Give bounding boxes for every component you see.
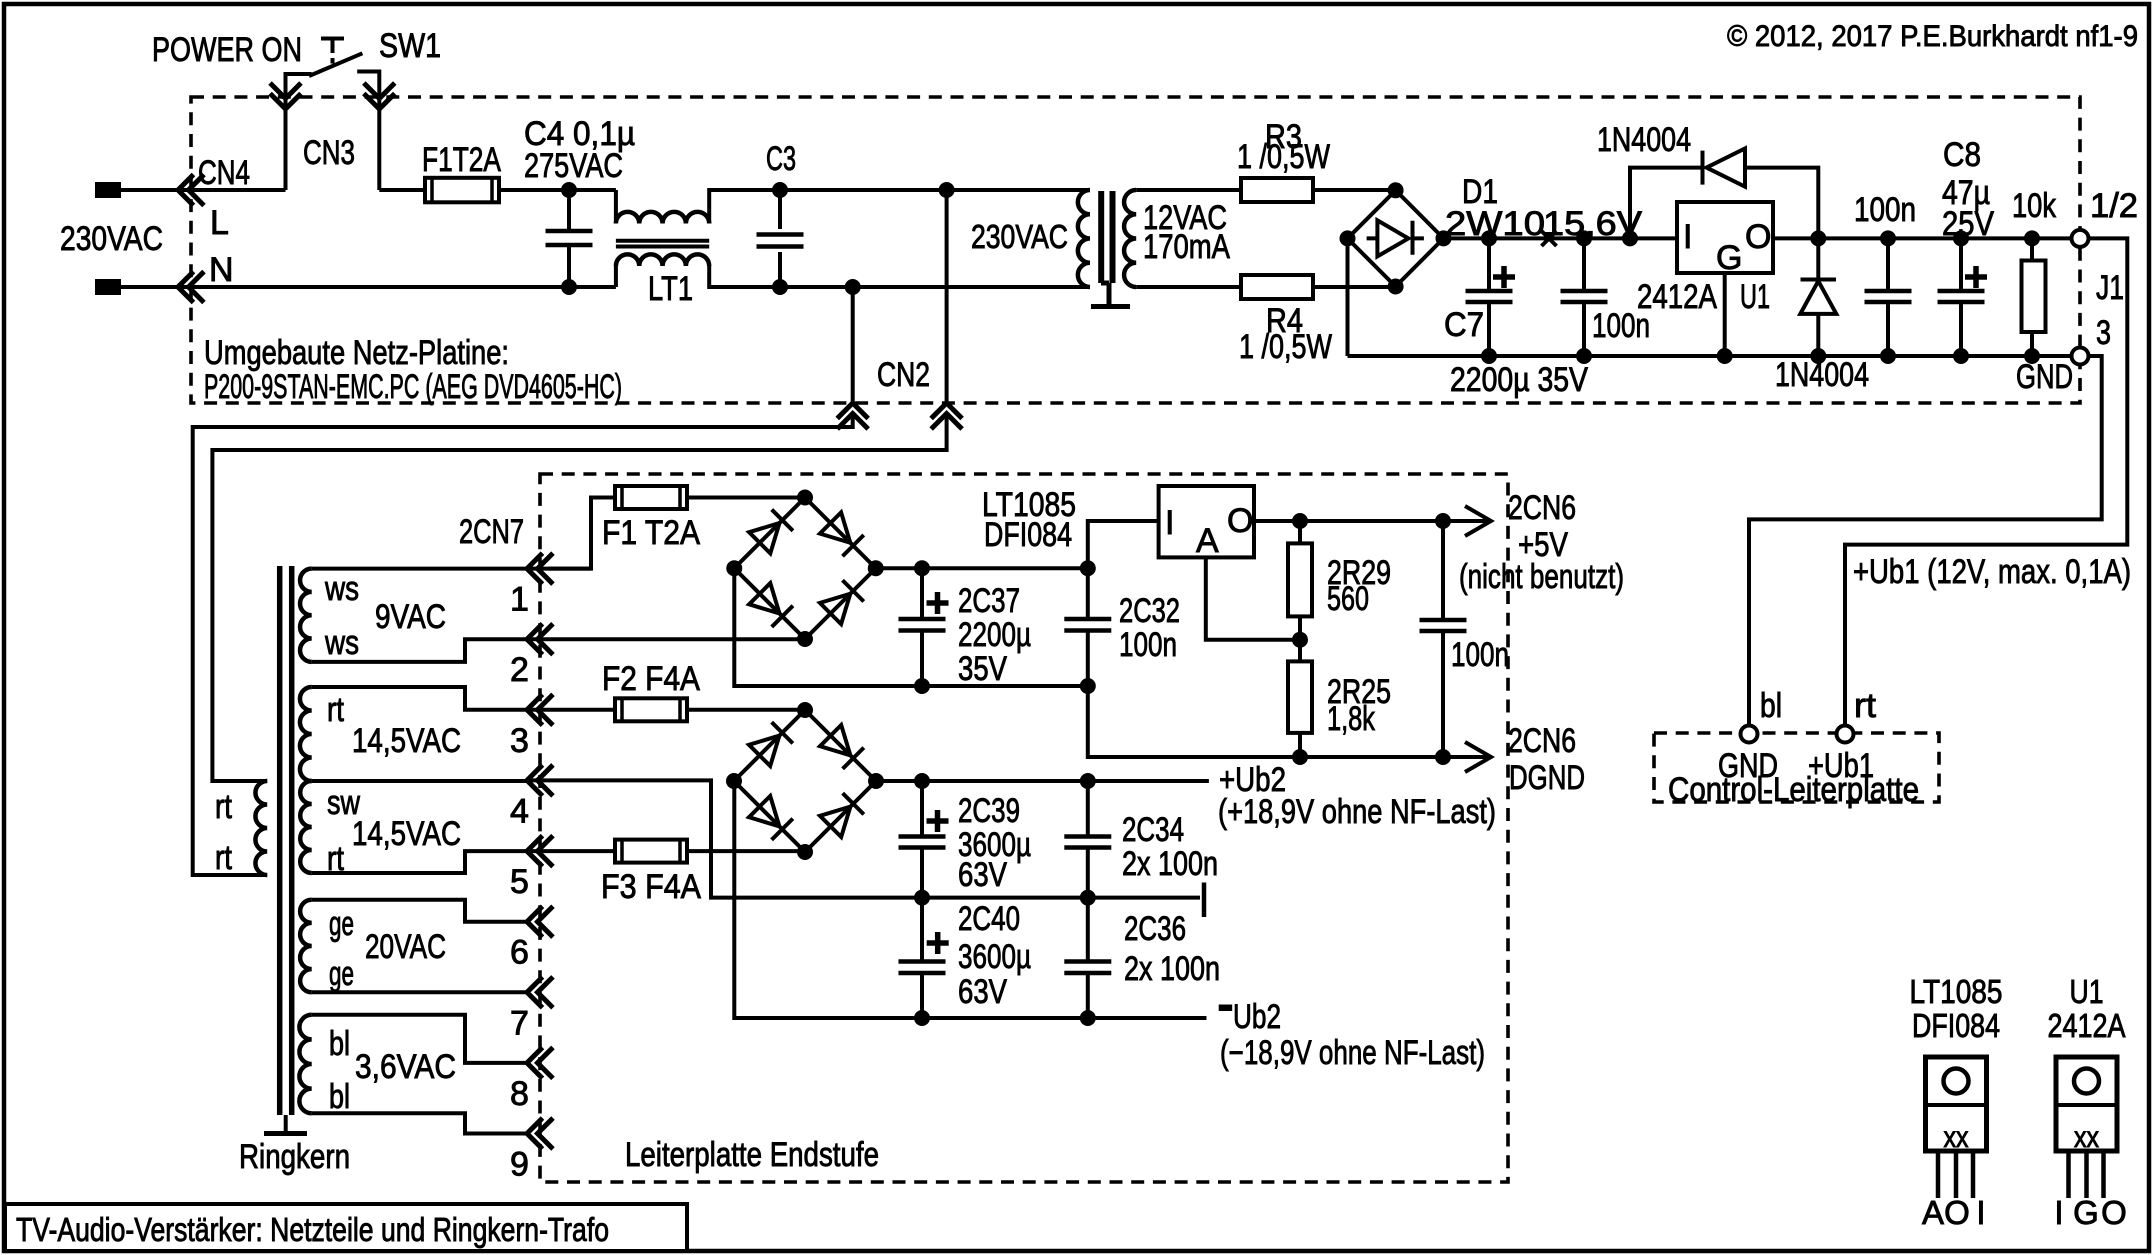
2C40 leads — [920, 898, 924, 1018]
node 1N4004 tap — [1622, 230, 1638, 246]
svg-text:4: 4 — [510, 792, 529, 830]
C3 plates — [757, 235, 804, 247]
connector 2CN7 pin 9 — [527, 1120, 551, 1147]
100n-b leads — [1886, 238, 1890, 356]
wire pin5 to F3 — [527, 849, 615, 853]
node R29 top — [1292, 513, 1308, 529]
node diode2 bottom — [1810, 348, 1826, 364]
+Ub2 rail — [876, 779, 1209, 783]
svg-text:9VAC: 9VAC — [375, 598, 446, 636]
connector 2CN7 pin 4 — [527, 767, 551, 794]
node U1 out / bypass — [1810, 230, 1826, 246]
LT1085 adj lead — [1206, 557, 1299, 639]
svg-text:CN2: CN2 — [877, 356, 930, 394]
wire N terminal to C4 — [121, 285, 616, 289]
B1 minus rail — [734, 568, 1491, 757]
arrow 2CN6 +5V — [1465, 506, 1491, 536]
connector 2CN7 pin 1 — [527, 555, 551, 582]
connector 2CN7 pin 2 — [527, 626, 551, 653]
svg-text:LT1085: LT1085 — [1910, 973, 2003, 1010]
svg-text:rt: rt — [1854, 687, 1877, 725]
svg-text:2CN6: 2CN6 — [1508, 722, 1576, 760]
svg-text:1 /0,5W: 1 /0,5W — [1237, 138, 1330, 176]
node C3 bottom — [772, 279, 788, 295]
connector 2CN7 pin 7 — [527, 979, 551, 1006]
svg-text:bl: bl — [329, 1078, 350, 1116]
node C7 bottom — [1481, 348, 1497, 364]
wire F2 to bridge B2 top — [687, 708, 805, 712]
fuse F1 T2A — [615, 486, 687, 509]
connector J1 pin 3 — [2072, 348, 2089, 365]
svg-text:CN4: CN4 — [198, 154, 250, 192]
svg-text:O: O — [2101, 1194, 2127, 1231]
D1 corner nodes — [1340, 182, 1452, 294]
package U1 2412A — [2056, 1057, 2117, 1198]
svg-text:1 /0,5W: 1 /0,5W — [1239, 328, 1332, 366]
fuse F3 F4A — [615, 840, 687, 863]
node 2C32 bottom — [1080, 678, 1096, 694]
svg-text:POWER ON: POWER ON — [152, 31, 302, 69]
C4 leads — [567, 190, 571, 287]
svg-text:F1T2A: F1T2A — [422, 141, 501, 179]
svg-text:275VAC: 275VAC — [524, 147, 623, 185]
fuse F2 F4A — [615, 698, 687, 721]
2C37 leads — [920, 568, 924, 686]
resistor 10k — [2022, 261, 2046, 333]
node C8 top — [1953, 230, 1969, 246]
svg-text:bl: bl — [1760, 687, 1782, 725]
node 10k top — [2024, 230, 2040, 246]
svg-text:3,6VAC: 3,6VAC — [355, 1048, 456, 1086]
wire switch right contact — [357, 72, 379, 191]
svg-text:I: I — [1976, 1194, 1985, 1231]
100n-c leads — [1441, 521, 1445, 757]
svg-text:100n: 100n — [1119, 626, 1177, 664]
2C34 leads — [1086, 781, 1090, 898]
svg-text:U1: U1 — [1740, 278, 1770, 316]
wire C3 bottom to transformer — [780, 285, 1090, 289]
control board terminal rt — [1837, 726, 1854, 743]
lead w4 bottom to pin7 — [312, 990, 527, 994]
svg-text:rt: rt — [215, 839, 232, 877]
connector 2CN7 pin 5 — [527, 837, 551, 864]
node 2C34 top — [1080, 773, 1096, 789]
svg-text:xx: xx — [2074, 1121, 2099, 1154]
B2 minus wire down to -Ub2 rail — [734, 781, 1206, 1018]
wire switch to fuse — [379, 188, 425, 192]
2C32 plates — [1064, 619, 1111, 631]
Ringkern winding 4 ge-ge 20VAC — [300, 900, 312, 993]
wire CN3 pin1 up to switch — [286, 74, 312, 190]
node 2C40 bottom — [914, 1010, 930, 1026]
svg-text:100n: 100n — [1854, 191, 1916, 229]
2C36 leads — [1086, 898, 1090, 1018]
svg-text:63V: 63V — [958, 856, 1007, 894]
node R29-R25 junction — [1292, 632, 1308, 648]
svg-text:A: A — [1922, 1194, 1944, 1231]
node CN2 drop 2 on L line — [939, 182, 955, 198]
2C34 plates — [1064, 837, 1111, 848]
svg-text:100n: 100n — [1451, 636, 1509, 674]
svg-text:DFI084: DFI084 — [984, 516, 1072, 554]
2C36 plates — [1064, 962, 1111, 974]
svg-text:10k: 10k — [2012, 187, 2057, 225]
svg-text:6: 6 — [510, 934, 529, 972]
arrow 2CN6 DGND — [1465, 742, 1491, 772]
LT1 bottom-left lead — [614, 266, 618, 287]
svg-text:O: O — [1944, 1194, 1970, 1231]
LT1085 output wire — [1254, 519, 1491, 523]
resistor R3 — [1241, 178, 1313, 202]
svg-text:2x 100n: 2x 100n — [1124, 950, 1220, 988]
C8 plates — [1938, 266, 1988, 302]
node 100n-c bottom — [1435, 749, 1451, 765]
LT1 top-right lead — [709, 190, 780, 224]
svg-text:3600µ: 3600µ — [958, 938, 1031, 976]
node 100n-a top — [1576, 230, 1592, 246]
node 100n-b top — [1880, 230, 1896, 246]
svg-text:DFI084: DFI084 — [1912, 1007, 2000, 1044]
wire L terminal to CN4 — [121, 188, 286, 192]
svg-text:P200-9STAN-EMC.PC (AEG DVD4605: P200-9STAN-EMC.PC (AEG DVD4605-HC) — [204, 368, 622, 406]
svg-text:J1: J1 — [2096, 269, 2124, 307]
node C7 top — [1481, 230, 1497, 246]
main +15V line — [1444, 236, 1678, 240]
2R25 leads — [1298, 640, 1302, 757]
T1 core bars — [1101, 191, 1112, 283]
resistor R4 — [1241, 275, 1313, 299]
node 10k bottom — [2024, 348, 2040, 364]
svg-text:8: 8 — [510, 1075, 529, 1113]
regulator LT1085 box — [1159, 486, 1254, 557]
Ringkern core ground — [284, 1115, 288, 1131]
svg-text:2C32: 2C32 — [1119, 592, 1180, 630]
LT1 top-left lead — [614, 190, 618, 224]
node C8 bottom — [1953, 348, 1969, 364]
node 2C36 bottom — [1080, 1010, 1096, 1026]
Ringkern winding 5 bl-bl 3,6VAC — [299, 1015, 311, 1113]
svg-text:7: 7 — [510, 1004, 529, 1042]
control board terminal bl — [1741, 726, 1758, 743]
mains terminal L — [95, 182, 121, 198]
node CN2 drop 1 on N line — [845, 279, 861, 295]
100n-b plates — [1865, 291, 1912, 302]
wire pin2 to bridge B1 bottom — [527, 637, 805, 641]
svg-text:35V: 35V — [958, 650, 1007, 688]
regulator U1 box — [1677, 202, 1773, 273]
svg-text:TV-Audio-Verstärker: Netzteile: TV-Audio-Verstärker: Netzteile und Ringk… — [16, 1211, 609, 1248]
svg-text:N: N — [209, 251, 234, 289]
svg-text:2: 2 — [510, 651, 529, 689]
wire J1 pin1/2 +Ub1 to control board — [1845, 238, 2127, 725]
lead w2 top to pin3 — [312, 687, 527, 710]
wire CN2 pin1 upper — [851, 287, 855, 402]
svg-text:I: I — [2054, 1194, 2063, 1231]
2C40 plates — [899, 932, 949, 973]
node 2C39 top — [914, 773, 930, 789]
svg-text:2200µ 35V: 2200µ 35V — [1450, 361, 1588, 399]
connector CN3 pin 1 — [272, 85, 299, 109]
svg-text:2C39: 2C39 — [958, 792, 1020, 830]
svg-text:xx: xx — [1944, 1121, 1969, 1154]
connector CN4 pin N — [178, 273, 202, 300]
switch SW1 blade — [309, 53, 362, 76]
wire CN2 pin1 to ringkern primary bottom — [193, 415, 853, 875]
Netz-Platine board dashed box — [191, 97, 2080, 403]
svg-text:(−18,9V ohne NF-Last): (−18,9V ohne NF-Last) — [1220, 1034, 1485, 1072]
svg-text:560: 560 — [1327, 580, 1369, 618]
svg-text:1N4004: 1N4004 — [1597, 121, 1691, 159]
svg-text:bl: bl — [329, 1025, 350, 1063]
connector CN2 pin 2 — [933, 403, 960, 427]
svg-text:I: I — [1165, 504, 1174, 542]
lead w1 top to pin1 — [312, 567, 591, 571]
svg-text:3: 3 — [2096, 314, 2111, 352]
node C4 bottom — [561, 279, 577, 295]
lead w2-w3 tap to pin4 — [312, 779, 527, 783]
node 100n-b bottom — [1880, 348, 1896, 364]
connector 2CN7 pin 3 — [527, 696, 551, 723]
T1 primary winding — [1078, 190, 1090, 287]
svg-text:2412A: 2412A — [2048, 1007, 2126, 1044]
T1 secondary winding — [1124, 190, 1136, 287]
svg-text:A: A — [1196, 522, 1219, 560]
D1 internal diode — [1367, 220, 1424, 256]
svg-text:SW1: SW1 — [379, 27, 441, 65]
connector J1 pin 1/2 — [2072, 230, 2089, 247]
svg-text:C3: C3 — [766, 140, 796, 178]
mains terminal N — [95, 279, 121, 295]
node 2C32 top — [1080, 560, 1096, 576]
U1 output wire — [1773, 236, 2072, 240]
connector 2CN7 pin 6 — [527, 908, 551, 935]
C3 leads — [778, 190, 782, 287]
svg-text:1: 1 — [510, 581, 529, 619]
svg-text:14,5VAC: 14,5VAC — [352, 722, 461, 760]
svg-text:2CN6: 2CN6 — [1508, 489, 1576, 527]
svg-text:© 2012, 2017 P.E.Burkhardt nf1: © 2012, 2017 P.E.Burkhardt nf1-9 — [1727, 20, 2138, 53]
svg-text:O: O — [1227, 502, 1253, 540]
node 100n-c top — [1435, 513, 1451, 529]
svg-text:63V: 63V — [958, 973, 1007, 1011]
wire R4 to D1 bottom — [1313, 285, 1396, 289]
Ringkern core bars — [280, 566, 292, 1115]
node C3 top — [772, 182, 788, 198]
svg-text:C7: C7 — [1444, 306, 1484, 344]
bridge rectifier B2 (±Ub2 supply) — [726, 702, 884, 860]
LT1 winding top — [616, 212, 709, 224]
node 100n-a bottom — [1576, 348, 1592, 364]
wire CN2 pin2 upper — [945, 190, 949, 402]
Ringkern winding 1 ws-ws 9VAC — [300, 569, 312, 662]
lead w5 top to pin8 — [312, 1015, 527, 1063]
svg-text:2412A: 2412A — [1637, 278, 1717, 316]
lead w4 top to pin6 — [312, 900, 527, 922]
100n-a plates — [1561, 291, 1608, 302]
2C39 plates — [899, 810, 949, 848]
svg-text:U1: U1 — [2070, 973, 2104, 1010]
C8 leads — [1959, 238, 1963, 356]
resistor 2R25 — [1288, 661, 1312, 733]
pin4 wire down to mid GND rail — [527, 780, 1200, 897]
C4 plates — [546, 231, 593, 245]
title box — [5, 1204, 687, 1251]
wire CN2 pin2 to ringkern primary top — [212, 415, 946, 781]
GND bottom rail — [1348, 354, 2072, 358]
svg-text:F1 T2A: F1 T2A — [602, 514, 700, 552]
lead w1 bottom to pin2 — [312, 639, 527, 662]
wire T1 secondary top to R3 — [1136, 188, 1241, 192]
svg-text:Umgebaute Netz-Platine:: Umgebaute Netz-Platine: — [204, 334, 509, 372]
Ringkern winding 2 rt 14,5VAC — [300, 687, 312, 781]
svg-text:I: I — [1683, 218, 1692, 256]
node 2C34 bottom — [1080, 890, 1096, 906]
svg-text:2CN7: 2CN7 — [459, 513, 524, 551]
svg-text:(nicht benutzt): (nicht benutzt) — [1459, 558, 1624, 596]
diode2 leads — [1816, 238, 1820, 356]
node 2C39 bottom — [914, 890, 930, 906]
svg-text:2x 100n: 2x 100n — [1122, 845, 1218, 883]
2C39 leads — [920, 781, 924, 898]
C7 leads — [1487, 238, 1491, 356]
T1 core ground — [1101, 283, 1109, 305]
svg-text:2C40: 2C40 — [958, 900, 1020, 938]
svg-text:G: G — [1716, 239, 1742, 277]
node C4 top — [561, 182, 577, 198]
wire R3 to D1 top — [1313, 188, 1396, 192]
Control-Leiterplatte dashed box — [1654, 733, 1939, 802]
svg-text:9: 9 — [510, 1146, 529, 1184]
2R29 leads — [1298, 521, 1302, 640]
wire 1N4004 bypass left — [1630, 168, 1702, 239]
svg-text:DGND: DGND — [1509, 759, 1585, 797]
wire 1N4004 bypass right — [1745, 168, 1818, 239]
wire pin3 to F2 — [527, 708, 615, 712]
svg-text:1N4004: 1N4004 — [1775, 356, 1869, 394]
100n-a leads — [1582, 238, 1586, 356]
100n-c plates — [1420, 620, 1467, 631]
svg-text:Control-Leiterplatte: Control-Leiterplatte — [1668, 771, 1919, 809]
bridge rectifier D1 diamond — [1348, 190, 1444, 286]
10k leads — [2030, 238, 2034, 356]
svg-text:CN3: CN3 — [303, 134, 355, 172]
svg-text:230VAC: 230VAC — [60, 220, 163, 258]
Ringkern winding 3 sw-rt 14,5VAC — [300, 781, 312, 873]
LT1 bottom-right lead — [709, 266, 780, 287]
connector 2CN7 pin 8 — [527, 1049, 551, 1076]
svg-text:rt: rt — [327, 691, 344, 729]
svg-text:2C34: 2C34 — [1122, 811, 1184, 849]
svg-text:5: 5 — [510, 863, 529, 901]
node 2C37 bottom — [914, 678, 930, 694]
diode 1N4004 (bypass, pointing left) — [1703, 149, 1746, 187]
svg-text:Ub2: Ub2 — [1233, 998, 1281, 1036]
C7 plates — [1466, 266, 1516, 302]
svg-text:20VAC: 20VAC — [365, 928, 446, 966]
node R25 bottom — [1292, 749, 1308, 765]
minus sign of -Ub2 — [1219, 1005, 1233, 1012]
lead w5 bottom to pin9 — [312, 1113, 527, 1133]
Leiterplatte Endstufe dashed box — [540, 474, 1508, 1182]
svg-text:(+18,9V ohne NF-Last): (+18,9V ohne NF-Last) — [1218, 793, 1496, 831]
svg-text:ws: ws — [324, 570, 359, 608]
connector CN3 pin 2 — [366, 85, 393, 109]
U1 G lead — [1723, 273, 1727, 356]
node U1 G gnd — [1717, 348, 1733, 364]
bridge rectifier B1 (+5V supply) — [726, 490, 884, 648]
svg-text:2200µ: 2200µ — [958, 616, 1031, 654]
fuse F1T2A — [425, 178, 499, 203]
svg-text:1/2: 1/2 — [2090, 187, 2138, 225]
svg-text:1,8k: 1,8k — [1327, 700, 1376, 738]
svg-text:170mA: 170mA — [1143, 228, 1230, 266]
svg-text:3: 3 — [510, 722, 529, 760]
x measurement mark — [1542, 231, 1557, 246]
connector CN2 pin 1 — [839, 403, 866, 427]
svg-text:25V: 25V — [1942, 205, 1994, 243]
mid rail ground tick — [1202, 883, 1207, 918]
wire J1 pin3 GND to control board — [1749, 356, 2102, 726]
node 2C37 top — [914, 560, 930, 576]
wire D1 minus down to GND rail — [1346, 238, 1350, 356]
wire F1 to bridge B1 top — [687, 496, 805, 500]
svg-text:Ringkern: Ringkern — [239, 1138, 350, 1176]
svg-text:LT1: LT1 — [648, 270, 693, 308]
svg-text:2C37: 2C37 — [958, 582, 1020, 620]
svg-text:F2 F4A: F2 F4A — [602, 660, 700, 698]
svg-text:G: G — [2073, 1194, 2099, 1231]
svg-text:ge: ge — [329, 955, 354, 993]
2C32 leads — [1086, 568, 1090, 686]
LT1 winding bottom — [616, 254, 709, 266]
LT1 core bars — [616, 241, 709, 247]
svg-text:O: O — [1745, 218, 1771, 256]
package LT1085 DFI084 — [1926, 1057, 1987, 1198]
svg-text:Leiterplatte Endstufe: Leiterplatte Endstufe — [625, 1136, 879, 1174]
resistor 2R29 — [1288, 543, 1312, 616]
switch SW1 actuator T — [321, 39, 344, 64]
wire T1 secondary bottom to R4 — [1136, 285, 1241, 289]
svg-text:F3 F4A: F3 F4A — [601, 868, 701, 906]
2C37 plates — [899, 592, 949, 631]
svg-text:ws: ws — [324, 624, 359, 662]
wire fuse to C4 node — [499, 188, 616, 192]
svg-text:+Ub1 (12V, max. 0,1A): +Ub1 (12V, max. 0,1A) — [1853, 553, 2131, 591]
lead w3 bottom to pin5 — [312, 851, 527, 873]
svg-text:C8: C8 — [1943, 136, 1981, 174]
+5V raw rail — [876, 521, 1159, 568]
wire C3 top to transformer — [780, 188, 1090, 192]
svg-text:L: L — [210, 204, 229, 242]
svg-text:rt: rt — [215, 788, 232, 826]
svg-text:14,5VAC: 14,5VAC — [352, 815, 461, 853]
svg-text:ge: ge — [329, 905, 354, 943]
wire pin1 to F1 — [548, 498, 615, 569]
wire F3 to bridge B2 bottom — [687, 849, 805, 853]
svg-text:230VAC: 230VAC — [971, 218, 1068, 255]
svg-text:GND: GND — [2016, 358, 2073, 396]
svg-text:2C36: 2C36 — [1124, 910, 1186, 948]
connector CN4 pin L — [178, 176, 202, 203]
Ringkern primary winding rt-rt — [255, 781, 267, 875]
